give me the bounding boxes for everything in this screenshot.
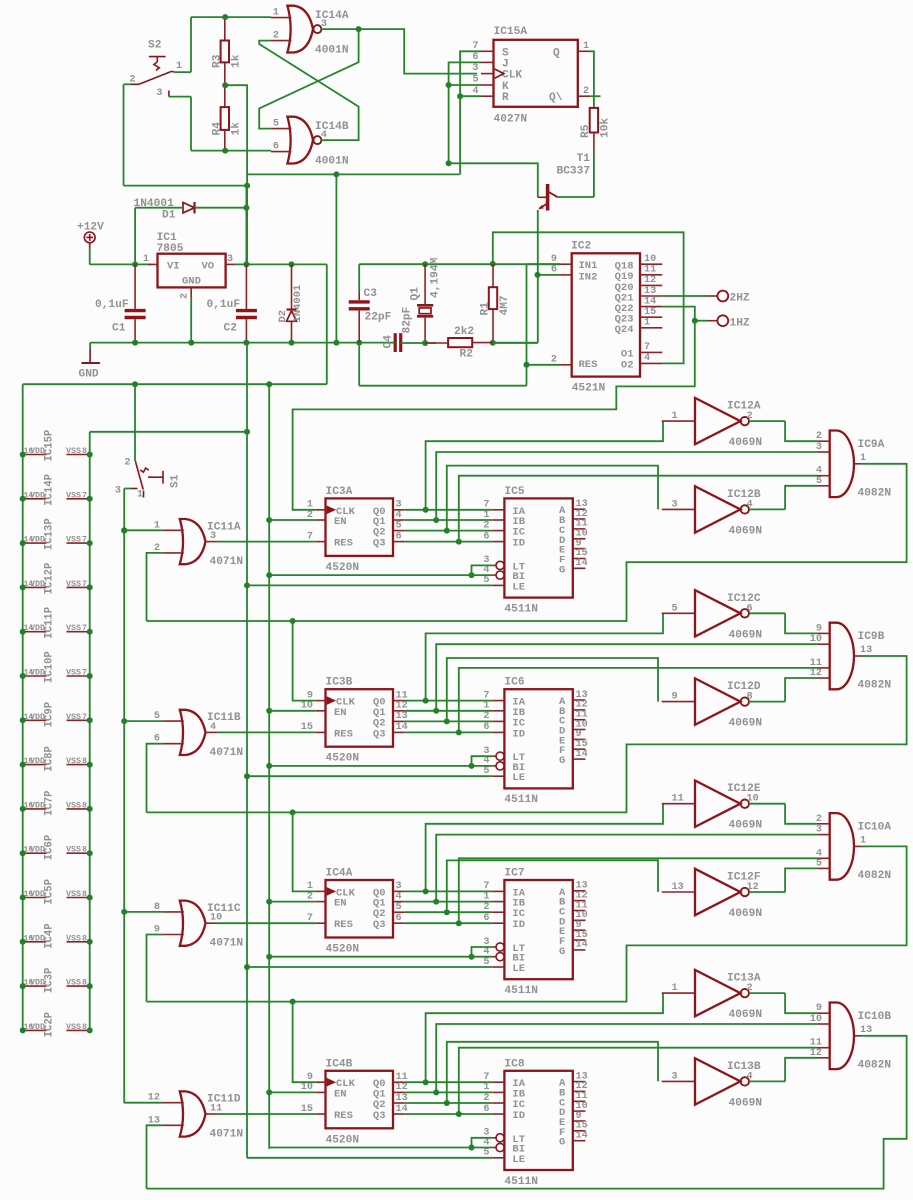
junction VSS-LE bus: [244, 429, 250, 435]
junction RES: [524, 362, 530, 368]
OR gate IC11B 4071N: [180, 710, 206, 755]
junction S1 feed: [132, 381, 138, 387]
IC3B Q3 pin 14: [393, 731, 405, 733]
svg-text:9: 9: [551, 254, 557, 265]
wire IC9A output: [861, 463, 867, 465]
OR gate IC11C 4071N: [180, 901, 206, 946]
svg-text:22pF: 22pF: [365, 312, 392, 324]
IC3B EN pin 10: [316, 710, 326, 712]
wire Q1 to IC9B input: [436, 644, 817, 711]
wire c4 left: [394, 342, 395, 344]
wire BI IC6: [269, 765, 492, 767]
svg-text:4: 4: [747, 1071, 753, 1082]
wire reset bus to IC11A input: [124, 529, 162, 531]
svg-text:VSS: VSS: [66, 800, 81, 810]
svg-text:1: 1: [483, 701, 489, 712]
IC7 A pin 13: [573, 890, 586, 892]
svg-text:IC9B: IC9B: [858, 631, 885, 643]
wire Q1 to decoder: [405, 1091, 493, 1093]
pin 3 CLK: [481, 73, 494, 75]
svg-text:IC12P: IC12P: [44, 563, 56, 595]
svg-text:+12V: +12V: [77, 222, 104, 234]
wire IC12C out to IC9B: [785, 613, 817, 633]
IC6 B pin 12: [573, 709, 586, 711]
wire 5V distribution line: [23, 383, 327, 385]
IC7 IB: [492, 901, 504, 903]
junction D1 cathode: [243, 205, 249, 211]
wire to VI: [90, 263, 151, 265]
wire vertical to IC14A pin1 line: [190, 17, 192, 72]
svg-text:7: 7: [82, 713, 87, 722]
svg-text:6: 6: [483, 913, 489, 924]
junction EN bus: [266, 517, 272, 523]
svg-text:9: 9: [816, 623, 822, 634]
junction EN bus: [266, 708, 272, 714]
wire Q0 to decoder: [405, 509, 493, 511]
junction IN2: [535, 272, 541, 278]
junction VSS IC9P: [87, 717, 93, 723]
wire IC12A output: [749, 420, 785, 422]
wire IC14A out to IC15A CLK: [359, 29, 477, 74]
svg-text:9: 9: [816, 1003, 822, 1014]
junction VSS IC12P: [87, 584, 93, 590]
junction reset bus: [121, 909, 127, 915]
wire S/R vertical to H2: [459, 96, 461, 174]
wire IC12A out to IC9A: [785, 421, 817, 441]
svg-text:Q3: Q3: [373, 919, 386, 931]
wire EN IC3A: [269, 519, 316, 521]
svg-text:J: J: [502, 58, 509, 70]
IC3A Q0 pin 3: [393, 509, 405, 511]
svg-text:VSS: VSS: [66, 535, 81, 545]
svg-text:1: 1: [483, 891, 489, 902]
svg-text:1: 1: [176, 61, 182, 72]
svg-text:VSS: VSS: [66, 978, 81, 988]
IC3A RES pin 7: [316, 541, 326, 543]
junction BI bus: [266, 954, 272, 960]
wire D1 anode: [135, 207, 183, 209]
wire S2 pin1 to vertical: [174, 71, 191, 73]
IC7 IA: [492, 890, 504, 892]
wire VDD rail: [22, 384, 24, 1030]
wire carry from IC10A: [147, 846, 907, 1001]
wire BI IC5: [269, 574, 492, 576]
wire H2 down to GND rail: [335, 174, 337, 342]
wire K: [449, 84, 481, 86]
pin 2 GND: [190, 287, 192, 297]
IC3A Q2 pin 5: [393, 530, 405, 532]
svg-text:4069N: 4069N: [729, 629, 763, 641]
junction IC1 gnd: [188, 340, 194, 346]
svg-text:IC12D: IC12D: [727, 681, 761, 693]
svg-text:VSS: VSS: [66, 446, 81, 456]
svg-text:IC4A: IC4A: [326, 868, 353, 880]
svg-text:Q3: Q3: [373, 538, 386, 550]
wire Q to R5: [590, 51, 594, 108]
junction D2 bottom: [289, 340, 295, 346]
junction gnd to H2: [333, 340, 339, 346]
svg-text:ID: ID: [512, 919, 525, 931]
power pins IC9P: [23, 719, 47, 721]
svg-text:Q1: Q1: [410, 287, 422, 301]
junction BI bus: [266, 572, 272, 578]
wire Q2 to IC12B input: [447, 466, 658, 531]
IC6 E pin 9: [573, 738, 586, 740]
svg-text:4001N: 4001N: [315, 45, 349, 57]
svg-text:IN1: IN1: [579, 260, 598, 272]
svg-text:13: 13: [860, 1025, 872, 1036]
pin 5 K: [481, 84, 494, 86]
svg-text:G: G: [559, 946, 565, 958]
junction VDD IC12P: [20, 584, 26, 590]
svg-text:6: 6: [273, 142, 279, 153]
pin 4 R: [481, 95, 494, 97]
svg-text:IC9P: IC9P: [44, 702, 56, 727]
svg-text:7: 7: [82, 669, 87, 678]
wire IC13A out to IC10B: [785, 993, 817, 1013]
IC8 IB: [492, 1091, 504, 1093]
svg-text:IC14P: IC14P: [44, 474, 56, 506]
junction Q3 bus: [456, 729, 462, 735]
junction S2 common: [244, 183, 250, 189]
junction VSS IC6P: [87, 850, 93, 856]
svg-text:6: 6: [483, 1104, 489, 1115]
IC3A Q3 pin 6: [393, 541, 405, 543]
svg-text:VSS: VSS: [66, 623, 81, 633]
svg-text:R1: R1: [480, 302, 492, 316]
svg-text:5: 5: [396, 902, 402, 913]
wire IC14A pin1: [191, 16, 271, 18]
svg-text:VSS: VSS: [66, 579, 81, 589]
wire Q0 to decoder: [405, 700, 493, 702]
junction VSS IC10P: [87, 673, 93, 679]
wire S2 pin3: [169, 96, 191, 98]
IC7 ID: [492, 922, 504, 924]
svg-text:EN: EN: [334, 707, 347, 719]
decoder IC6 4511N: [504, 689, 572, 788]
svg-text:12: 12: [810, 668, 822, 679]
svg-text:IC10B: IC10B: [858, 1011, 892, 1023]
wire up to RES junction: [526, 365, 528, 386]
svg-text:LE: LE: [512, 772, 525, 784]
svg-text:3: 3: [210, 531, 216, 542]
junction BI bus: [266, 763, 272, 769]
IC6 IC: [492, 720, 504, 722]
svg-text:3: 3: [227, 254, 233, 265]
svg-text:IC10P: IC10P: [44, 651, 56, 683]
svg-text:2: 2: [124, 458, 130, 469]
wire IC12E output: [749, 803, 785, 805]
wire gnd stem: [89, 343, 91, 349]
svg-text:IN2: IN2: [579, 271, 598, 283]
IC8 B pin 12: [573, 1090, 586, 1092]
wire IN1 node line: [359, 263, 560, 265]
wire Q1 to IC10B input: [436, 1024, 817, 1092]
svg-text:6: 6: [472, 52, 478, 63]
wire 5V to S1: [134, 384, 136, 461]
wire IC12F out to IC10A: [785, 868, 817, 892]
IC8 BI: [492, 1147, 496, 1149]
svg-text:10: 10: [747, 794, 759, 805]
svg-text:T1: T1: [577, 153, 591, 165]
svg-text:13: 13: [644, 286, 656, 297]
svg-text:14: 14: [576, 749, 588, 760]
svg-text:IC8P: IC8P: [44, 746, 56, 771]
capacitor C3 22pF: [349, 302, 370, 309]
svg-text:VSS: VSS: [66, 845, 81, 855]
junction VSS IC5P: [87, 895, 93, 901]
svg-text:R4: R4: [212, 122, 224, 136]
wire 5V vertical at x246: [245, 186, 247, 265]
svg-text:IC3B: IC3B: [326, 677, 353, 689]
junction VSS IC8P: [87, 762, 93, 768]
junction Q0 bus: [423, 698, 429, 704]
svg-text:GND: GND: [79, 369, 99, 381]
svg-text:7: 7: [472, 41, 478, 52]
IC5 IC: [492, 530, 504, 532]
svg-text:4511N: 4511N: [504, 603, 538, 615]
svg-text:4511N: 4511N: [504, 1176, 538, 1188]
IC4A CLK pin 1: [316, 890, 326, 892]
pin 13: [640, 295, 662, 297]
junction LT-BI: [469, 954, 475, 960]
wire IC9B output: [861, 655, 867, 657]
svg-text:7: 7: [644, 342, 650, 353]
wire Q3 to decoder: [405, 731, 493, 733]
IC4A Q1 pin 4: [393, 901, 405, 903]
wire Q0 to decoder: [405, 890, 493, 892]
wire IC12D output: [749, 701, 785, 703]
wire Q2 to decoder: [405, 911, 493, 913]
svg-text:IC3P: IC3P: [44, 968, 56, 993]
wire Q2 to decoder: [405, 530, 493, 532]
svg-text:R3: R3: [212, 54, 224, 68]
wire Q1 to decoder: [405, 710, 493, 712]
IC4B Q0 pin 11: [393, 1081, 405, 1083]
svg-text:4511N: 4511N: [504, 794, 538, 806]
junction LE bus: [244, 582, 250, 588]
wire Q3 to IC9A input: [459, 476, 818, 542]
power pins IC2P: [23, 1029, 47, 1031]
svg-text:5: 5: [816, 476, 822, 487]
svg-text:VSS: VSS: [66, 1022, 81, 1032]
wire IN2 connect: [538, 274, 560, 276]
wire Q22 to 1HZ: [662, 307, 695, 321]
svg-text:10: 10: [210, 913, 222, 924]
junction LE bus: [244, 964, 250, 970]
svg-text:1: 1: [143, 254, 149, 265]
wire IC13A output: [749, 992, 785, 994]
capacitor C1 0.1uF: [125, 311, 146, 318]
IC7 G pin 14: [573, 949, 586, 951]
junction VSS IC13P: [87, 540, 93, 546]
IC7 B pin 12: [573, 900, 586, 902]
svg-text:C2: C2: [224, 323, 238, 335]
IC9B input 12: [817, 677, 829, 679]
power pins IC6P: [23, 852, 47, 854]
svg-text:1: 1: [483, 510, 489, 521]
svg-text:3: 3: [816, 442, 822, 453]
svg-text:IC7P: IC7P: [44, 790, 56, 815]
junction VDD IC13P: [20, 540, 26, 546]
svg-text:Q: Q: [553, 47, 560, 59]
IC5 G pin 14: [573, 567, 586, 569]
junction C1 top: [132, 261, 138, 267]
junction VSS IC7P: [87, 806, 93, 812]
svg-text:IC8: IC8: [504, 1058, 524, 1070]
svg-text:15: 15: [644, 307, 656, 318]
svg-text:IC5: IC5: [504, 486, 524, 498]
svg-text:O2: O2: [621, 359, 634, 371]
wire O2 feedback to IN1: [493, 232, 684, 363]
wire Q3 to decoder: [405, 922, 493, 924]
svg-text:2: 2: [816, 431, 822, 442]
wire IC14B pin6: [191, 150, 271, 152]
junction EN bus: [266, 899, 272, 905]
junction VSS IC3P: [87, 983, 93, 989]
IC8 ID: [492, 1113, 504, 1115]
IC5 BI: [492, 574, 496, 576]
decoder IC8 4511N: [504, 1071, 572, 1170]
inverter IC13A 4069N: [695, 970, 740, 1016]
IC3A EN pin 2: [316, 519, 326, 521]
IC4A Q0 pin 3: [393, 890, 405, 892]
IC3A CLK pin 1: [316, 509, 326, 511]
AND gate IC9A 4082N: [830, 431, 854, 498]
svg-text:6: 6: [483, 722, 489, 733]
svg-text:3: 3: [672, 1071, 678, 1082]
junction C2 top: [243, 261, 249, 267]
svg-text:4: 4: [644, 353, 650, 364]
svg-text:3: 3: [816, 825, 822, 836]
wire carry to IC4B CLK: [293, 1002, 316, 1083]
wire GND rail: [90, 342, 394, 344]
pin 10: [640, 263, 662, 265]
IC6 IA: [492, 700, 504, 702]
svg-text:RES: RES: [334, 538, 353, 550]
pin 12: [640, 284, 662, 286]
wire vertical to 5V rail: [246, 174, 248, 264]
IC8 C pin 11: [573, 1100, 586, 1102]
svg-text:BC337: BC337: [557, 166, 591, 178]
svg-text:IC4P: IC4P: [44, 923, 56, 948]
IC5 D pin 10: [573, 538, 586, 540]
wire RES net vertical to IN1 line: [526, 264, 528, 364]
svg-text:4: 4: [396, 510, 402, 521]
wire VSS rail: [89, 432, 91, 1031]
svg-text:IC2P: IC2P: [44, 1012, 56, 1037]
junction Q0 bus: [423, 507, 429, 513]
pin 2 Q\: [578, 95, 590, 97]
IC10A input 4: [817, 857, 829, 859]
junction Q1 bus: [433, 1089, 439, 1095]
svg-text:7: 7: [307, 531, 313, 542]
svg-text:Q3: Q3: [373, 728, 386, 740]
wire C3 top: [358, 264, 360, 291]
wire carry to IC4A CLK: [293, 812, 316, 891]
junction Q2 bus: [444, 528, 450, 534]
IC9A input 2: [817, 440, 829, 442]
svg-text:3: 3: [115, 486, 121, 497]
wire S2 pin2 stub: [124, 83, 132, 85]
svg-text:4071N: 4071N: [210, 747, 244, 759]
svg-text:4069N: 4069N: [729, 525, 763, 537]
svg-text:D1: D1: [162, 210, 176, 222]
junction R1 top / feedback: [490, 261, 496, 267]
svg-text:ID: ID: [512, 728, 525, 740]
wire IC12D out to IC9B: [785, 678, 817, 702]
junction VDD IC8P: [20, 762, 26, 768]
svg-text:14: 14: [576, 558, 588, 569]
svg-text:13: 13: [672, 882, 684, 893]
IC4B EN pin 10: [316, 1091, 326, 1093]
svg-text:ID: ID: [512, 1110, 525, 1122]
svg-text:4520N: 4520N: [326, 562, 360, 574]
IC6 IB: [492, 710, 504, 712]
wire RES connect: [527, 364, 560, 366]
svg-text:14: 14: [644, 296, 656, 307]
NOR gate IC14B: [287, 117, 313, 164]
svg-text:4069N: 4069N: [729, 1009, 763, 1021]
pin 9 IN1: [560, 263, 572, 265]
IC4A Q2 pin 5: [393, 911, 405, 913]
wire EN IC3B: [269, 710, 316, 712]
svg-text:D2: D2: [277, 310, 289, 323]
svg-text:Q3: Q3: [373, 1110, 386, 1122]
wire carry return to IC11B input: [147, 744, 163, 813]
svg-text:14: 14: [576, 1131, 588, 1142]
svg-text:IC13A: IC13A: [727, 973, 761, 985]
pin 6 IN2: [560, 274, 572, 276]
power pins IC7P: [23, 808, 47, 810]
svg-text:2k2: 2k2: [454, 326, 474, 338]
svg-text:G: G: [559, 755, 565, 767]
junction EN bus: [266, 1089, 272, 1095]
wire R5 bottom: [593, 150, 595, 197]
svg-text:VO: VO: [202, 261, 215, 273]
svg-text:IC4B: IC4B: [326, 1058, 353, 1070]
wire 5V rail down to distribution: [326, 264, 328, 384]
svg-text:14: 14: [576, 940, 588, 951]
IC6 G pin 14: [573, 758, 586, 760]
svg-text:IC6P: IC6P: [44, 835, 56, 860]
wire EN IC4B: [269, 1091, 316, 1093]
junction S-R: [457, 93, 463, 99]
IC4A RES pin 7: [316, 922, 326, 924]
wire LT tie IC8: [472, 1138, 493, 1148]
svg-text:2: 2: [273, 31, 279, 42]
svg-text:4520N: 4520N: [326, 944, 360, 956]
svg-text:4,194M: 4,194M: [430, 257, 442, 298]
junction reset bus: [121, 718, 127, 724]
svg-text:IC13B: IC13B: [727, 1061, 761, 1073]
junction Q3 bus: [456, 920, 462, 926]
junction LT-BI: [469, 1145, 475, 1151]
wire carry return to IC11D input: [147, 1125, 163, 1188]
resistor R4: [221, 107, 229, 130]
resistor R1: [489, 287, 497, 309]
wire IC11C out to IC4A RES: [218, 922, 316, 924]
svg-text:IC12B: IC12B: [727, 489, 761, 501]
wire IC13B output: [749, 1080, 785, 1082]
IC5 E pin 9: [573, 548, 586, 550]
junction Q3 bus: [456, 1111, 462, 1117]
IC8 LT: [492, 1137, 496, 1139]
svg-text:2: 2: [551, 354, 557, 365]
svg-text:4520N: 4520N: [326, 753, 360, 765]
wire +12V down: [89, 248, 91, 265]
wire IC11B out to IC3B RES: [218, 731, 316, 733]
